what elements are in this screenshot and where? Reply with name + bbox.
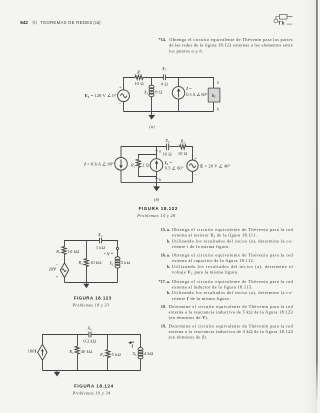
label 40 kohm (81, 349, 93, 354)
icon source circle (274, 19, 278, 23)
load box RL (208, 88, 220, 102)
svg-text:Obtenga el circuito equivalent: Obtenga el circuito equivalente de Théve… (169, 37, 293, 42)
resistor R1 branch wire top (77, 335, 79, 346)
svg-text:a: a (159, 149, 161, 154)
label 0.5 A 60 (186, 92, 207, 97)
svg-text:10 kΩ: 10 kΩ (90, 260, 102, 265)
node b label (159, 177, 161, 182)
svg-text:+: + (56, 274, 59, 279)
label 10 ohm (134, 81, 143, 86)
node b (217, 107, 219, 112)
svg-text:5 kΩ: 5 kΩ (112, 352, 121, 357)
svg-text:18.: 18. (161, 304, 166, 309)
svg-text:externa a la reactancia induct: externa a la reactancia inductiva de 4 k… (169, 329, 294, 334)
label R1 (55, 249, 61, 255)
caption (b) (154, 197, 160, 202)
icon resistor box (279, 14, 287, 19)
label XC (97, 232, 104, 238)
svg-text:b.: b. (167, 264, 170, 269)
label XC (164, 138, 171, 144)
minus sign 20V (56, 262, 59, 267)
svg-text:externa al capacitor de la fig: externa al capacitor de la figura 18.112… (172, 258, 255, 263)
wire top right segment (102, 241, 118, 248)
wire top mid segment (169, 146, 179, 148)
resistor R2 branch wire top (107, 335, 109, 349)
label 8 ohm (155, 90, 162, 95)
minus sign E (194, 172, 197, 177)
icon output wire (287, 16, 293, 18)
wire I2 branch top (156, 147, 158, 159)
wire left bottom (120, 170, 122, 182)
wire R1 to source (64, 255, 66, 263)
svg-text:16.: 16. (161, 253, 166, 258)
ground (83, 283, 89, 289)
svg-text:*14.: *14. (159, 37, 166, 42)
wire top mid segment (144, 77, 163, 79)
label 20V (49, 267, 58, 272)
resistor R1 (75, 345, 79, 356)
controlled current source 100I diamond (38, 344, 47, 360)
wire right bottom (117, 268, 119, 282)
svg-text:*17.: *17. (159, 279, 166, 284)
svg-text:de las redes de la figura 18.1: de las redes de la figura 18.122 externa… (169, 43, 293, 48)
svg-text:Obtenga el circuito equivalent: Obtenga el circuito equivalente de Théve… (172, 253, 294, 258)
wire bottom (121, 181, 193, 183)
svg-text:a.: a. (167, 279, 170, 284)
svg-text:los puntos a y b.: los puntos a y b. (169, 48, 203, 53)
current source I2 (150, 159, 163, 172)
resistor R1 (136, 158, 140, 168)
resistor R2 (179, 145, 187, 149)
svg-text:b: b (217, 107, 219, 112)
ground (148, 112, 155, 120)
label E = 20V (200, 163, 230, 168)
svg-text:19.: 19. (161, 323, 166, 328)
wire bottom (65, 282, 118, 284)
plus sign 20V (56, 274, 59, 279)
svg-text:Problemas 19 y 34: Problemas 19 y 34 (72, 391, 111, 396)
caption 18.122 (136, 206, 178, 218)
wire bottom (43, 370, 141, 372)
svg-text:Determine el circuito equivale: Determine el circuito equivalente de Thé… (169, 323, 294, 328)
wire bottom (124, 111, 214, 113)
wire I2 branch bottom (156, 171, 158, 182)
label 4 kohm (144, 351, 153, 356)
svg-text:E = 20 V ∠ 40°: E = 20 V ∠ 40° (200, 163, 230, 168)
svg-text:(en términos de V).: (en términos de V). (169, 315, 209, 320)
svg-text:I = 0.6 A ∠ 90°: I = 0.6 A ∠ 90° (83, 161, 114, 166)
middle branch R2 wire top (86, 241, 88, 258)
label R2 (180, 139, 186, 145)
wire current source top (178, 78, 180, 87)
svg-text:(en términos de I).: (en términos de I). (169, 335, 208, 340)
label R1 (68, 349, 74, 355)
node a label (159, 149, 161, 154)
label 10 ohm R2 (178, 151, 187, 156)
svg-text:TEOREMAS DE REDES: TEOREMAS DE REDES (40, 20, 92, 25)
svg-text:I: I (131, 343, 134, 348)
ground (153, 182, 160, 191)
caption 18.124 (72, 383, 114, 395)
wire top right segment (187, 147, 193, 161)
inductor XL branch wire bottom (151, 97, 153, 112)
node a (217, 79, 219, 84)
svg-text:Determine el circuito equivale: Determine el circuito equivalente de Thé… (169, 304, 294, 309)
svg-text:R: R (136, 70, 140, 75)
svg-text:−: − (194, 172, 197, 177)
svg-text:rriente i de la misma figura.: rriente i de la misma figura. (172, 244, 230, 249)
resistor R (134, 75, 144, 79)
svg-text:842: 842 (20, 20, 28, 25)
svg-text:1 kΩ: 1 kΩ (96, 245, 105, 250)
capacitor XC series (167, 144, 169, 151)
svg-text:a.: a. (167, 227, 170, 232)
label +V- marking (104, 252, 113, 257)
wire source bottom (42, 360, 44, 370)
capacitor XC series (89, 332, 91, 338)
svg-text:100I: 100I (28, 349, 37, 354)
wire top right segment (91, 335, 140, 348)
svg-text:Obtenga el circuito equivalent: Obtenga el circuito equivalente de Théve… (172, 227, 294, 232)
wire top left segment (43, 335, 89, 345)
label 2 ohm (142, 163, 149, 168)
svg-text:b.: b. (167, 238, 170, 243)
svg-text:40 kΩ: 40 kΩ (81, 349, 93, 354)
svg-text:b.: b. (167, 290, 170, 295)
svg-text:8 Ω: 8 Ω (155, 90, 162, 95)
caption (a) (149, 124, 155, 129)
node circle (116, 247, 118, 249)
wire top left segment (121, 147, 166, 158)
svg-text:Obtenga el circuito equivalent: Obtenga el circuito equivalente de Théve… (172, 279, 294, 284)
svg-text:0.2 kΩ: 0.2 kΩ (84, 339, 97, 344)
icon lower wire (287, 23, 292, 25)
label 0.2 kohm (84, 339, 97, 344)
svg-text:Problemas 14 y 28: Problemas 14 y 28 (136, 213, 176, 218)
resistor R2 (106, 349, 110, 359)
svg-text:a: a (217, 79, 219, 84)
label R1 (130, 163, 136, 169)
svg-text:+: + (119, 85, 122, 90)
svg-text:−: − (119, 102, 122, 107)
svg-text:10 Ω: 10 Ω (134, 81, 143, 86)
svg-text:b: b (159, 177, 161, 182)
svg-text:4 Ω: 4 Ω (161, 82, 168, 87)
caption 18.123 (72, 296, 112, 308)
svg-text:5 kΩ: 5 kΩ (121, 260, 130, 265)
svg-text:0.5 A ∠ 60°: 0.5 A ∠ 60° (186, 92, 207, 97)
label 1 kohm (96, 245, 105, 250)
svg-text:externa a la reactancia induct: externa a la reactancia inductiva de 5 k… (169, 310, 294, 315)
minus sign E1 (119, 102, 122, 107)
label I arrow marking (128, 341, 134, 348)
wire R2 bottom (86, 268, 88, 283)
inductor XL branch wire top (151, 78, 153, 86)
label 5 kohm (121, 260, 130, 265)
wire node to coil (117, 250, 119, 257)
label 4 ohm (161, 82, 168, 87)
wire current source bottom (178, 99, 180, 112)
label XL (108, 260, 114, 266)
inductor XL (149, 85, 154, 97)
label I = (185, 86, 192, 91)
ground (54, 371, 60, 377)
label 10 kohm R1 (68, 249, 80, 254)
label 10 ohm XC (162, 152, 171, 157)
label XL (132, 351, 138, 357)
inductor XL (138, 347, 143, 358)
svg-text:2 Ω: 2 Ω (142, 163, 149, 168)
voltage source E (187, 160, 198, 171)
svg-text:10 Ω: 10 Ω (178, 151, 187, 156)
icon wire (276, 17, 280, 19)
current source I (172, 87, 184, 99)
label R2 (78, 260, 84, 266)
wire top left segment (65, 241, 99, 246)
wire R1 loop top (139, 155, 157, 159)
wire R1 bottom (77, 356, 79, 371)
header (20, 20, 101, 25)
controlled voltage source 20V diamond (60, 263, 68, 278)
chapter icon Th (274, 14, 293, 26)
svg-text:I =: I = (185, 86, 192, 91)
svg-text:rriente I de la misma figura.: rriente I de la misma figura. (172, 296, 231, 301)
label E1 = 120V (85, 93, 117, 99)
label R2 (99, 352, 105, 358)
plus sign E (195, 155, 198, 160)
label 0.5 60 (165, 166, 184, 171)
svg-text:(b): (b) (154, 197, 160, 202)
svg-text:0.5 ∠ 60°: 0.5 ∠ 60° (165, 166, 184, 171)
label 5 kohm (112, 352, 121, 357)
label 10 kohm R2 (90, 260, 102, 265)
svg-text:20V: 20V (49, 267, 58, 272)
svg-text:a.: a. (167, 253, 170, 258)
svg-text:+: + (104, 252, 106, 256)
wire XL bottom (140, 359, 142, 370)
node b tick (155, 177, 158, 179)
label I = 0.6A (83, 161, 114, 166)
svg-text:10 kΩ: 10 kΩ (68, 249, 80, 254)
svg-text:FIGURA 18.124: FIGURA 18.124 (74, 383, 113, 388)
svg-text:FIGURA 18.122: FIGURA 18.122 (139, 206, 178, 211)
svg-text:(ca): (ca) (93, 20, 101, 25)
capacitor XC series (100, 238, 102, 244)
label XC (161, 66, 168, 72)
capacitor XC series (164, 74, 166, 80)
svg-text:Th: Th (278, 21, 285, 27)
resistor R2 (84, 258, 88, 268)
plus sign E1 (119, 85, 122, 90)
node a tick (155, 150, 158, 152)
wire source bottom (64, 278, 66, 283)
svg-text:10 Ω: 10 Ω (162, 152, 171, 157)
svg-text:externa al inductor de la figu: externa al inductor de la figura 18.113. (172, 285, 253, 290)
svg-text:15.: 15. (161, 227, 166, 232)
resistor R1 (62, 246, 66, 256)
label 100I (28, 349, 37, 354)
svg-text:4 kΩ: 4 kΩ (144, 351, 153, 356)
wire top right segment (166, 78, 214, 89)
wire R1 loop bottom (139, 168, 157, 176)
svg-text:(a): (a) (149, 124, 155, 129)
wire source bottom (123, 102, 125, 112)
svg-text:+: + (195, 155, 198, 160)
label XC (86, 326, 93, 332)
wire load bottom (213, 102, 215, 112)
svg-text:Problemas 18 y 33: Problemas 18 y 33 (72, 303, 109, 308)
inductor XL (115, 257, 120, 268)
wire E bottom (192, 171, 194, 182)
label I2 = (164, 160, 173, 166)
voltage source E1 (118, 90, 130, 102)
label XL (143, 90, 149, 96)
current source I left (115, 158, 128, 171)
wire top left segment (124, 78, 135, 90)
label R (136, 70, 140, 75)
wire R2 bottom (107, 359, 109, 370)
svg-text:FIGURA 18.123: FIGURA 18.123 (74, 296, 112, 301)
